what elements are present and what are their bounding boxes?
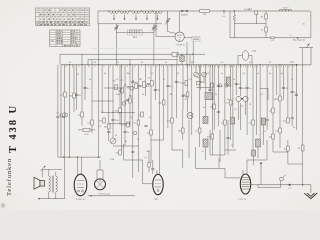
svg-text:2n: 2n [293, 127, 295, 129]
capacitor C27 [126, 99, 129, 100]
wire [57, 118, 59, 158]
wire [252, 65, 254, 150]
tube V7: UY 11 rectifier (striped oval) [240, 174, 250, 194]
wire [182, 110, 184, 140]
wire [272, 130, 274, 152]
wire [55, 172, 57, 176]
resistor R43 [143, 82, 146, 88]
svg-text:0,1: 0,1 [149, 117, 152, 119]
svg-text:50p: 50p [146, 151, 149, 153]
resistor R35 [103, 118, 106, 123]
svg-text:≙ UY 11: ≙ UY 11 [238, 198, 247, 201]
resistor R5 [265, 27, 268, 32]
wire [242, 170, 244, 174]
svg-text:0,1: 0,1 [207, 73, 210, 75]
wire [143, 183, 153, 185]
IF transformer L14 (iron core, dark) [205, 93, 213, 100]
wire [273, 151, 288, 153]
svg-text:10: 10 [233, 79, 235, 81]
wire [159, 173, 161, 175]
capacitor C29 [266, 119, 269, 120]
wire [263, 125, 265, 145]
node [90, 195, 92, 197]
wire [152, 160, 154, 168]
table 2 cell figures [51, 31, 78, 47]
wire [265, 11, 267, 14]
capacitor C12 [166, 85, 169, 86]
resistor R33 [64, 92, 67, 97]
wire [113, 145, 138, 147]
resistor R22 [272, 108, 275, 113]
tube V3: dual diode (two circles) [236, 96, 241, 101]
node [98, 156, 99, 157]
resistor R20 [229, 100, 232, 105]
arrow: hum adjust [41, 166, 46, 171]
node [77, 156, 78, 157]
dial lamp arrow symbol [299, 44, 313, 65]
node: HT+ terminal [296, 64, 298, 66]
wire: mains lower rail [230, 37, 311, 39]
coil L3 [132, 11, 140, 20]
wire [78, 129, 83, 131]
svg-text:Aus Typ (.2): Aus Typ (.2) [293, 39, 305, 42]
wire [81, 157, 83, 174]
tube V6: UF 11 IF amp (oval) [153, 174, 163, 194]
wire [217, 65, 219, 96]
wire stubs: tube socket comb along HT bus [66, 65, 294, 68]
wire [224, 168, 226, 178]
resistor R40 [211, 83, 214, 88]
wire [73, 98, 75, 112]
capacitor C42 [138, 85, 141, 86]
wire: aerial input top bus [98, 10, 310, 12]
wire [55, 192, 57, 199]
svg-text:5k: 5k [231, 145, 233, 147]
capacitor C10 [144, 85, 147, 86]
resistor R30 [198, 128, 201, 133]
wire: bus extension [297, 64, 312, 66]
table: tube data chart [36, 8, 90, 26]
wire [195, 167, 225, 169]
capacitor C44 [151, 168, 154, 169]
svg-text:0,1: 0,1 [202, 151, 205, 153]
svg-text:0,1: 0,1 [99, 126, 102, 128]
capacitor C5 [75, 94, 78, 95]
resistor R10 [108, 124, 111, 129]
node [186, 54, 187, 55]
svg-text:0,1: 0,1 [57, 113, 60, 115]
wire [224, 65, 226, 155]
wire [163, 120, 165, 140]
capacitor C8 [123, 131, 126, 132]
wire [260, 87, 268, 89]
wire [144, 65, 146, 96]
wire: bottom return rail [88, 195, 135, 197]
wire: right edge drop [310, 11, 312, 38]
svg-text:5n: 5n [165, 62, 167, 64]
capacitor C19 [239, 87, 242, 88]
wire [152, 170, 154, 174]
tube V4: UCL 11 output (oval) [74, 174, 87, 196]
resistor R11 [119, 108, 122, 113]
wire [225, 177, 240, 179]
wire [257, 147, 259, 158]
svg-text:0,2: 0,2 [116, 79, 119, 81]
svg-text:468kHz: 468kHz [181, 15, 188, 17]
coil L11 (iron core) [252, 150, 256, 156]
resistor R29 [287, 146, 290, 151]
wire [276, 65, 278, 95]
svg-text:0,5: 0,5 [221, 62, 224, 64]
node: junction top bus [223, 10, 225, 12]
capacitor C21 [282, 87, 285, 88]
wire [199, 65, 201, 90]
wire [246, 168, 248, 174]
loudspeaker LS1 [34, 177, 45, 189]
svg-text:Telefunken: Telefunken [6, 158, 13, 196]
nodes: bus junction dots [69, 64, 293, 65]
wire [132, 90, 134, 178]
capacitor C13 [175, 81, 178, 82]
wire [76, 65, 78, 110]
resistor R15 [162, 100, 165, 105]
wire [256, 65, 258, 110]
wire [295, 65, 297, 130]
svg-text:10: 10 [249, 62, 251, 64]
wire [148, 167, 150, 172]
wire [288, 163, 303, 165]
trimmer C39 [225, 84, 228, 87]
wire [48, 169, 50, 176]
node [176, 54, 177, 55]
resistor R17 [186, 92, 189, 97]
trimmer capacitor C23 [194, 72, 199, 77]
capacitor C35 [144, 125, 147, 126]
wire: detector link [102, 111, 135, 113]
wire [310, 185, 312, 193]
wire [232, 65, 234, 118]
wire [119, 65, 121, 125]
svg-text:25: 25 [274, 99, 276, 101]
wire [156, 170, 158, 174]
wire [253, 156, 255, 165]
wire [186, 42, 188, 65]
wire [251, 56, 253, 65]
resistor R4 [265, 14, 268, 19]
svg-text:5k: 5k [257, 73, 259, 75]
svg-text:50: 50 [132, 81, 134, 83]
resistor R13 [137, 120, 140, 125]
resistor R8 [81, 112, 84, 117]
resistor R19 [224, 120, 227, 125]
wire [69, 65, 71, 157]
svg-text:50: 50 [104, 73, 106, 75]
svg-text:0,1: 0,1 [145, 157, 148, 159]
wire: right HT drop [302, 48, 304, 145]
wire [154, 65, 156, 100]
wire [64, 65, 66, 199]
svg-text:25: 25 [130, 117, 132, 119]
resistor R28 [279, 128, 282, 133]
trimmer capacitor C24 [202, 72, 207, 77]
IF coil L15 (iron core) [226, 77, 231, 86]
resistor R14 [150, 130, 153, 135]
wire: tap [152, 10, 154, 12]
wire [235, 65, 237, 95]
variable capacitor C4 (gang symbol) [181, 10, 187, 12]
wire [159, 65, 161, 174]
wire [124, 159, 143, 161]
wire [150, 65, 152, 163]
wire [92, 100, 113, 102]
wire [96, 170, 98, 179]
wire [266, 88, 268, 119]
wire [245, 102, 247, 115]
wire [101, 65, 103, 113]
wire [151, 139, 164, 141]
wire [233, 21, 235, 38]
wire [91, 60, 93, 133]
trimmer C41 [130, 86, 134, 90]
wire [182, 65, 184, 110]
svg-text:70: 70 [249, 104, 251, 106]
terminal: pilot lamp tap [255, 11, 258, 14]
svg-text:1 g(.): 1 g(.) [154, 199, 159, 201]
svg-text:0,1: 0,1 [269, 62, 272, 64]
wire [109, 123, 130, 125]
trimmer capacitor C1 [114, 24, 118, 33]
electrolytic capacitor C31 (can) [242, 51, 248, 61]
wire [77, 157, 79, 174]
wire [205, 65, 207, 117]
svg-text:1n: 1n [291, 79, 293, 81]
coil L5 [153, 11, 161, 20]
wire [98, 65, 100, 157]
capacitor C11 [154, 89, 157, 90]
wire [279, 65, 281, 120]
wire: tap [108, 10, 110, 12]
wire [104, 87, 122, 89]
trimmer C38 [219, 84, 222, 87]
wire: coil lower bus [98, 23, 162, 25]
svg-text:1n: 1n [139, 79, 141, 81]
svg-text:-25: -25 [302, 24, 305, 26]
wire [115, 33, 117, 65]
wire: HF coupling [229, 11, 231, 38]
coil L2 [120, 11, 128, 20]
wire [195, 65, 197, 72]
wire [112, 65, 114, 138]
svg-text:3n: 3n [89, 79, 91, 81]
svg-text:10: 10 [241, 106, 243, 108]
wire: AVC rail [88, 59, 177, 61]
svg-text:5k: 5k [163, 79, 165, 81]
capacitor C32 [217, 111, 220, 112]
wire [213, 65, 215, 130]
trimmer capacitor C3 [165, 11, 170, 28]
tube V2 socket (circle) [187, 113, 193, 119]
wire [194, 147, 196, 168]
wire [176, 54, 178, 65]
capacitor C25 [56, 116, 59, 117]
wire: gang capacitor bus [116, 32, 154, 34]
tube V1: ECH 11 mixer (circle) [175, 32, 184, 41]
wire [172, 149, 183, 151]
wire [266, 121, 268, 130]
wire [279, 181, 281, 188]
resistor R24 [287, 118, 290, 123]
IF coil L10 (iron core) [256, 139, 261, 147]
capacitor C20 [246, 87, 249, 88]
wire [238, 55, 242, 57]
wire [196, 87, 210, 89]
table cell figures [37, 10, 89, 26]
svg-text:4n: 4n [203, 107, 205, 109]
wire [225, 149, 236, 151]
wire [291, 65, 293, 105]
wire [267, 88, 269, 100]
wire [279, 120, 281, 148]
wire [81, 54, 83, 126]
svg-text:5k: 5k [137, 139, 139, 141]
arrow: HT feed indicator [260, 162, 262, 170]
wire [191, 65, 193, 135]
wire [246, 96, 248, 135]
wire [249, 55, 252, 57]
resistor R23 [279, 96, 282, 101]
svg-text:5kHz: 5kHz [116, 94, 120, 96]
wire [255, 14, 257, 23]
svg-text:MLK: MLK [133, 37, 138, 39]
IF coil L6 (iron core) [203, 117, 208, 124]
node [101, 112, 102, 113]
node: soldered junction [289, 184, 291, 186]
wire [73, 65, 75, 93]
svg-text:1M: 1M [104, 126, 107, 128]
choke L13: mains dropper on top line [279, 9, 292, 11]
wire [260, 170, 262, 185]
wire [266, 65, 268, 89]
wire [167, 65, 169, 128]
IF transformer T1 (dashed box) [192, 36, 200, 41]
resistor R6 [301, 145, 304, 151]
node [302, 184, 304, 186]
wire [178, 53, 205, 55]
wire [265, 32, 267, 38]
capacitor C28 [295, 94, 298, 95]
node [192, 54, 193, 55]
svg-text:0,5: 0,5 [189, 79, 192, 81]
node [63, 156, 64, 157]
wire: tap [118, 10, 120, 12]
svg-text:50p: 50p [196, 77, 199, 79]
wire [137, 65, 139, 157]
ground: chassis arrow symbol [304, 193, 317, 199]
wire [108, 65, 110, 141]
wire [302, 151, 304, 185]
wire [189, 54, 191, 65]
node [69, 156, 70, 157]
svg-text:10k: 10k [126, 73, 129, 75]
table: coil/resistance chart [50, 30, 81, 47]
resistor R3 zigzag [233, 11, 236, 21]
wire [239, 65, 241, 96]
wire [175, 65, 177, 118]
wire: heater link [234, 23, 266, 25]
capacitor C14 [181, 95, 184, 96]
IF coil L9 (iron core) [203, 139, 208, 147]
terminal: jack [133, 131, 137, 135]
svg-text:0,1: 0,1 [141, 62, 144, 64]
resistor R39 [185, 81, 188, 86]
capacitor C17 [217, 85, 220, 86]
capacitor C18 [235, 83, 238, 84]
capacitor C36 [131, 151, 134, 152]
capacitor C43 [147, 83, 150, 84]
resistor R34 [73, 93, 76, 98]
switch S2: mains switch [280, 177, 284, 181]
wire [41, 169, 43, 177]
resistor R16 [171, 118, 174, 123]
wire [181, 61, 183, 65]
wire [163, 65, 165, 120]
wire [258, 187, 280, 189]
svg-text:0,1: 0,1 [185, 99, 188, 101]
resistor R27 [272, 134, 275, 139]
wire [219, 130, 221, 162]
wire [129, 60, 131, 127]
svg-text:0,5M: 0,5M [110, 159, 115, 161]
svg-text:50: 50 [227, 99, 229, 101]
resistor R41 [115, 85, 118, 89]
resistor R31 [211, 134, 214, 139]
resistor R7 on rail [172, 52, 178, 56]
wire [192, 42, 194, 65]
resistor R45 [148, 163, 150, 168]
svg-text:50: 50 [269, 73, 271, 75]
wire [272, 65, 274, 130]
svg-text:0,2: 0,2 [261, 94, 264, 96]
capacitor C15 [199, 81, 202, 82]
capacitor C9 [131, 81, 134, 82]
svg-text:220V∼: 220V∼ [283, 8, 289, 10]
wire: cathode rail [58, 156, 101, 158]
svg-text:0,1: 0,1 [235, 109, 238, 111]
wire: tube V1 anode feed [179, 11, 181, 32]
wire [142, 160, 144, 184]
wire [239, 103, 241, 130]
wire [205, 147, 207, 160]
node: chassis tag [38, 198, 40, 200]
wire [181, 54, 183, 56]
capacitor C16 [208, 89, 211, 90]
resistor R12 [129, 98, 132, 103]
svg-text:0,1: 0,1 [264, 131, 267, 133]
capacitor C33 [226, 137, 229, 138]
terminal: grid cap [65, 114, 68, 117]
wire [90, 129, 95, 131]
wire [98, 24, 100, 65]
capacitor C26 [62, 116, 65, 117]
capacitor C7 [111, 119, 114, 120]
svg-text:2W: 2W [203, 14, 206, 16]
wire [102, 170, 104, 179]
wire [237, 56, 239, 65]
wire [199, 65, 201, 147]
wire: speaker return [39, 198, 65, 200]
wire [171, 65, 173, 150]
resistor R18 [213, 104, 216, 109]
